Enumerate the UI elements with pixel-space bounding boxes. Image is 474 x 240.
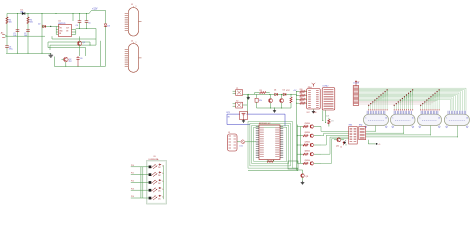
svg-text:LM2576: LM2576	[58, 23, 66, 25]
ground rtc bottom	[273, 108, 276, 112]
diode D4	[275, 93, 278, 96]
connector CON16 body	[353, 84, 359, 105]
svg-text:a: a	[136, 5, 137, 7]
display module DS3 body	[418, 111, 442, 126]
resistor R2	[27, 17, 29, 24]
transistor Q3 rtc	[269, 94, 273, 108]
svg-text:16: 16	[466, 117, 468, 119]
capacitor C4	[78, 21, 82, 28]
led staircase module 2	[394, 89, 414, 110]
wire bottom return	[54, 41, 105, 67]
svg-text:32k: 32k	[259, 100, 262, 102]
capacitor C3 polarized	[5, 36, 9, 53]
wire q-column left verticals	[297, 125, 302, 164]
transistor Q2	[62, 57, 69, 66]
svg-text:P11: P11	[131, 173, 134, 175]
svg-text:16: 16	[438, 117, 440, 119]
regulator U1 body	[58, 25, 71, 37]
wire rn bottom notch	[368, 140, 377, 145]
wire driver left bus verticals	[141, 167, 143, 198]
svg-text:R12: R12	[300, 97, 303, 99]
wire U1 right pin stubs	[72, 30, 76, 35]
svg-text:+5: +5	[378, 144, 380, 146]
U1 inner pin text	[59, 28, 69, 36]
svg-text:1: 1	[446, 117, 447, 119]
capacitor C6 vertical	[76, 56, 79, 66]
svg-text:a: a	[136, 42, 137, 44]
module DS3 corner pins	[419, 126, 441, 128]
resistor R1	[6, 17, 8, 24]
svg-text:5x: 5x	[162, 173, 164, 175]
transistor Q11	[301, 174, 305, 181]
AC source terminal	[1, 31, 7, 37]
svg-text:D5: D5	[283, 89, 285, 91]
svg-text:5x: 5x	[162, 181, 164, 183]
transistor Q1	[77, 36, 82, 56]
resistor RP3	[296, 98, 307, 100]
relay K1 box	[233, 90, 243, 96]
svg-text:Q98550: Q98550	[305, 160, 311, 162]
mcu pin hatches right	[280, 127, 283, 158]
led staircase module 3	[420, 89, 440, 110]
wire input row 1	[131, 166, 149, 168]
svg-text:2SC: 2SC	[158, 183, 161, 185]
display module DS4 body	[444, 111, 469, 126]
svg-text:RN1: RN1	[349, 125, 352, 127]
darlington stage 2	[149, 172, 158, 176]
wire left branch	[6, 14, 8, 37]
connector J1 body	[125, 6, 142, 36]
wire input row 3	[131, 181, 149, 183]
wire isp left vertical	[297, 92, 303, 174]
wire bus loop 4	[254, 127, 287, 161]
wire feedback loop d	[48, 48, 86, 56]
resistor RP1	[296, 91, 307, 93]
resistor RP2	[296, 94, 307, 96]
driver block outline	[147, 161, 167, 205]
transistor Q7 stage	[297, 143, 321, 147]
wire input row 4	[131, 189, 149, 191]
svg-text:BT1: BT1	[227, 112, 230, 114]
buzzer LS1	[237, 140, 256, 144]
ground battery	[242, 120, 245, 123]
svg-text:C5: C5	[88, 23, 90, 25]
connector J4 sip body	[322, 88, 335, 110]
svg-text:1: 1	[366, 117, 367, 119]
svg-text:D3: D3	[107, 25, 109, 27]
svg-text:C6: C6	[80, 58, 82, 60]
connector J2 body	[125, 42, 142, 72]
wire battery blue top	[227, 114, 285, 126]
battery BT1 symbol	[240, 112, 248, 120]
transistor Q9 stage	[297, 162, 321, 166]
diode marks stage 3	[158, 179, 164, 184]
wire branch x79.5	[79, 14, 81, 21]
wire AC input middle rail	[7, 35, 45, 37]
wire feedback loop a	[52, 38, 96, 40]
resistor network RN1	[349, 125, 358, 144]
wire loop corner box	[288, 161, 298, 169]
resistor R6	[328, 118, 330, 127]
svg-text:FB: FB	[59, 33, 61, 35]
diode marks stage 5	[158, 195, 164, 200]
wire +5V takeoff	[89, 10, 106, 19]
svg-text:2SC: 2SC	[158, 175, 161, 177]
svg-text:GND: GND	[59, 30, 63, 32]
svg-text:ULN2003A: ULN2003A	[149, 158, 159, 161]
label J3 antenna	[308, 83, 316, 89]
wire battery blue lower	[227, 124, 250, 126]
wire bus loop outer	[248, 122, 292, 169]
svg-text:P10: P10	[131, 165, 134, 167]
relay K2 box	[233, 102, 243, 108]
mcu inner pin names	[260, 127, 279, 156]
transistor Q8 stage	[297, 152, 321, 156]
ground main	[49, 53, 54, 57]
resistor network RN2	[359, 125, 366, 140]
svg-text:R11: R11	[300, 93, 303, 95]
wire rtc main horizontal	[243, 94, 297, 95]
wire GND bottom rail	[6, 52, 51, 54]
connector J5 body	[228, 134, 238, 151]
svg-text:VIN: VIN	[59, 28, 62, 30]
svg-text:16: 16	[385, 117, 387, 119]
svg-text:AT89S52 U2: AT89S52 U2	[259, 122, 271, 125]
svg-text:5x: 5x	[162, 197, 164, 199]
transistor Q6 stage	[297, 134, 321, 138]
svg-text:D2: D2	[38, 24, 40, 26]
wire rtc drop to mcu	[246, 105, 248, 114]
svg-text:J1: J1	[131, 4, 134, 6]
svg-text:D4: D4	[274, 89, 276, 91]
wire feedback loop b	[48, 42, 90, 45]
diode D2	[42, 25, 60, 28]
svg-text:VCC: VCC	[286, 90, 291, 92]
diode marks stage 2	[158, 172, 164, 177]
svg-text:Y1: Y1	[236, 88, 238, 90]
wire U1 left pin stubs	[56, 26, 58, 34]
zener D3	[104, 19, 107, 66]
module DS4 corner pins	[446, 126, 469, 128]
svg-text:RN2: RN2	[359, 125, 362, 127]
resistor R5 under mcu	[267, 160, 274, 163]
svg-text:C4: C4	[76, 25, 78, 27]
svg-text:Q78550: Q78550	[305, 141, 311, 143]
svg-text:2SC: 2SC	[158, 198, 161, 200]
svg-text:CON12: CON12	[322, 85, 328, 87]
transistor Q5 stage	[297, 125, 321, 129]
svg-text:817: 817	[69, 61, 72, 63]
diode marks stage 1	[158, 164, 164, 169]
wire k2 to rail	[243, 94, 248, 105]
svg-text:J2: J2	[131, 40, 134, 42]
svg-text:5x: 5x	[162, 189, 164, 191]
wire loop left drops	[48, 36, 54, 66]
wire branch x28	[27, 14, 29, 54]
module DS2 corner pins	[392, 126, 414, 128]
mcu pin hatches left	[256, 127, 259, 158]
power arrow left	[340, 141, 344, 148]
svg-text:ON: ON	[66, 30, 68, 32]
wire branch x42	[41, 14, 43, 54]
svg-text:VCC: VCC	[307, 112, 311, 114]
svg-text:Q1: Q1	[82, 42, 85, 44]
diode marks stage 4	[158, 187, 164, 192]
display module DS2 body	[391, 111, 416, 126]
junction dots top rail	[17, 13, 87, 14]
svg-text:P14: P14	[131, 196, 134, 198]
wire display bus lines short	[359, 100, 438, 104]
svg-text:5x: 5x	[162, 165, 164, 167]
connector J3 dip body	[307, 89, 321, 109]
wire input row 2	[131, 174, 149, 176]
svg-text:5V: 5V	[357, 81, 359, 83]
wire rn feed vertical	[345, 144, 347, 146]
wire U1 output net	[76, 28, 96, 45]
svg-text:1: 1	[420, 117, 421, 119]
wire branch x86.5	[86, 14, 88, 21]
wire rtc bottom rail	[257, 107, 292, 108]
svg-text:2SC: 2SC	[158, 191, 161, 193]
wire feedback loop c	[50, 45, 96, 46]
wire q-column right risers	[321, 127, 349, 164]
svg-text:10k: 10k	[9, 22, 12, 24]
svg-text:P13: P13	[131, 188, 134, 190]
capacitor C2	[26, 30, 30, 32]
svg-text:R10: R10	[300, 89, 303, 91]
diode D5	[283, 93, 286, 96]
wire bus loop bottom extension	[248, 168, 298, 171]
wire branch x73 cap C4	[72, 14, 74, 22]
svg-text:2SC: 2SC	[158, 167, 161, 169]
crystal Y3	[255, 94, 258, 108]
darlington stage 1	[149, 164, 158, 168]
transistor Q10	[334, 138, 344, 142]
svg-text:12: 12	[340, 147, 342, 149]
svg-text:AC: AC	[1, 31, 4, 34]
svg-text:U5: U5	[154, 156, 156, 158]
capacitor C1	[16, 30, 20, 32]
module DS1 corner pins	[365, 126, 388, 128]
wire bus loop 3	[252, 125, 289, 163]
svg-text:+12V: +12V	[92, 9, 98, 11]
ground dot q10	[343, 140, 346, 144]
diode D1	[22, 12, 25, 15]
svg-text:Q58550: Q58550	[305, 123, 311, 125]
wire branch x17.5	[17, 14, 19, 54]
svg-text:16: 16	[412, 117, 414, 119]
wire bus loop 2	[250, 123, 291, 165]
svg-text:JTAG: JTAG	[308, 86, 313, 89]
wire J4 bottom drops	[322, 110, 326, 123]
svg-text:R3: R3	[260, 90, 262, 92]
svg-text:1: 1	[393, 117, 394, 119]
svg-text:Q68550: Q68550	[305, 132, 311, 134]
display module DS1 body	[364, 111, 389, 126]
svg-text:J5: J5	[228, 132, 230, 134]
power flag above CON16	[355, 80, 359, 84]
capacitor C5	[85, 21, 89, 28]
led staircase module 1	[368, 89, 388, 110]
wire display bus lines wrap to module4	[359, 88, 466, 110]
mcu U2 body	[259, 125, 280, 160]
svg-text:472: 472	[331, 121, 334, 123]
svg-text:GND: GND	[313, 112, 317, 114]
svg-text:470u: 470u	[9, 49, 13, 51]
svg-text:OUT: OUT	[66, 28, 69, 30]
svg-text:P12: P12	[131, 181, 134, 183]
wire VIN top rail	[7, 13, 89, 15]
ground rtc	[247, 94, 250, 99]
svg-text:R13: R13	[300, 101, 303, 103]
svg-text:Q10: Q10	[336, 145, 339, 147]
svg-text:560: 560	[30, 22, 33, 24]
svg-text:LS1: LS1	[240, 146, 243, 148]
junction dots bottom rail	[17, 53, 43, 54]
darlington stage 5	[149, 196, 158, 200]
svg-text:4x7k: 4x7k	[326, 116, 329, 118]
svg-text:Q11: Q11	[305, 176, 308, 178]
resistor R4 vertical	[290, 94, 292, 108]
darlington stage 4	[149, 188, 158, 192]
wire input row 5	[131, 197, 149, 199]
ground isp drop	[301, 181, 305, 184]
resistor R3 horizontal	[255, 92, 270, 95]
transistor Q4 rtc	[280, 94, 284, 108]
svg-text:1N4: 1N4	[20, 11, 23, 13]
svg-text:Q88550: Q88550	[305, 151, 311, 153]
svg-text:Y2: Y2	[236, 100, 238, 102]
svg-text:3V: 3V	[228, 117, 231, 119]
resistor RP4	[296, 102, 307, 104]
darlington stage 3	[149, 180, 158, 184]
wire driver right vertical	[162, 165, 164, 199]
wire module bottom drops	[366, 126, 458, 138]
ground J3	[312, 109, 315, 113]
